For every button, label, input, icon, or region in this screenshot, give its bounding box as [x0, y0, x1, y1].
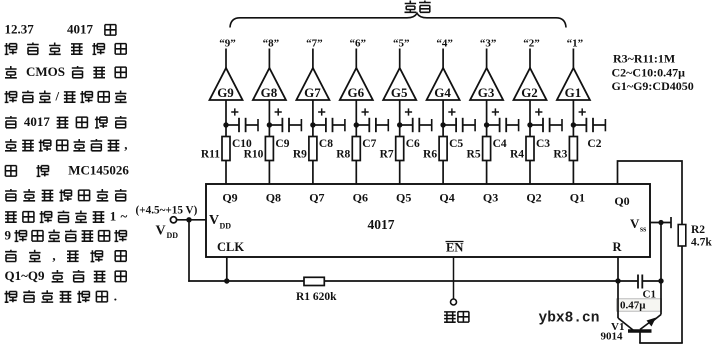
capacitor C10 [226, 118, 258, 132]
svg-text:Q3: Q3 [483, 191, 498, 205]
buffer G9 (CD4050) [210, 68, 243, 100]
resistor R10 [265, 137, 273, 161]
svg-text:G7: G7 [304, 85, 321, 100]
buffer G5 (CD4050) [383, 68, 416, 100]
wire: R10 to 4017 pin Q8 [268, 161, 270, 185]
svg-text:R3: R3 [553, 149, 567, 161]
svg-text:1: 1 [110, 209, 117, 224]
value label 0.47u (boxed) [617, 299, 662, 312]
wire: R6 to 4017 pin Q4 [442, 161, 444, 185]
wire: R11 to 4017 pin Q9 [225, 161, 227, 185]
node: input label 输入 [444, 312, 469, 323]
resistor R8 [352, 137, 360, 161]
buffer G6 (CD4050) [340, 68, 373, 100]
junction on Vss stub [658, 220, 663, 225]
polarity + of capacitor C5 [448, 108, 455, 115]
wire: Q0 pin up and over to R2 [618, 161, 683, 225]
pin label EN (active low) [446, 241, 464, 255]
wire: VDD terminal to pin VDD [177, 219, 206, 221]
svg-text:“3”: “3” [480, 37, 497, 49]
capacitor C7 [356, 118, 388, 132]
capacitor C3 [530, 118, 562, 132]
svg-text:“2”: “2” [523, 37, 540, 49]
svg-text:~: ~ [121, 209, 128, 224]
capacitor C9 [269, 118, 301, 132]
svg-text:C2: C2 [587, 138, 601, 150]
svg-text:Q8: Q8 [266, 191, 281, 205]
polarity + of capacitor C3 [535, 108, 542, 115]
junction node at G2 input [527, 122, 532, 127]
wire: output stub to buffer G6 [355, 49, 357, 69]
svg-text:MC145026: MC145026 [68, 163, 129, 178]
svg-text:ybx8.cn: ybx8.cn [539, 311, 600, 327]
svg-text:“9”: “9” [219, 37, 236, 49]
pin label VSS (inside) [630, 216, 646, 234]
wire: output stub to buffer G2 [529, 49, 531, 69]
capacitor C4 [487, 118, 519, 132]
resistor R2 [678, 225, 686, 247]
svg-text:ss: ss [640, 225, 646, 234]
polarity + of capacitor C4 [492, 108, 499, 115]
svg-text:4017: 4017 [67, 22, 94, 37]
svg-text:G6: G6 [347, 85, 364, 100]
svg-text:R11: R11 [201, 149, 220, 161]
wire: output stub to buffer G1 [572, 49, 574, 69]
svg-text:R5: R5 [467, 149, 481, 161]
svg-text:DD: DD [167, 231, 179, 240]
svg-text:Q0: Q0 [614, 194, 629, 208]
wire: VDD junction down to bottom rail [188, 220, 190, 282]
svg-text:“8”: “8” [263, 37, 280, 49]
resistor R5 [483, 137, 491, 161]
svg-text:C9: C9 [275, 138, 289, 150]
brace over outputs [230, 13, 566, 27]
wire: output stub to buffer G4 [442, 49, 444, 69]
capacitor C8 [313, 118, 345, 132]
wire: output stub to buffer G8 [268, 49, 270, 69]
transistor V1 emitter arrow [640, 318, 656, 330]
svg-text:9014: 9014 [601, 331, 624, 343]
wire: Vss junction down to C1 right node [660, 223, 662, 282]
svg-text:G1: G1 [565, 85, 582, 100]
svg-text:“4”: “4” [436, 37, 453, 49]
wire: EN pin down to input terminal [453, 257, 455, 299]
svg-text:G4: G4 [434, 85, 451, 100]
svg-text:C5: C5 [449, 138, 463, 150]
svg-text:EN: EN [446, 241, 463, 255]
wire: R2 down to emitter rail [681, 246, 683, 343]
resistor R11 [222, 137, 230, 161]
svg-text:V: V [630, 216, 640, 231]
svg-text:R10: R10 [244, 149, 264, 161]
wire: buffer G5 input down to node [399, 100, 401, 137]
svg-text:0.47μ: 0.47μ [620, 300, 646, 312]
polarity + of capacitor C8 [318, 108, 325, 115]
svg-text:DD: DD [220, 222, 232, 231]
wire: bottom collector rail to R2 [639, 342, 683, 344]
wire: output stub to buffer G3 [486, 49, 488, 69]
wire: buffer G6 input down to node [355, 100, 357, 137]
wire: R4 to 4017 pin Q2 [529, 161, 531, 185]
IC U1 4017 body [206, 184, 650, 257]
resistor R4 [526, 137, 534, 161]
buffer G2 (CD4050) [514, 68, 547, 100]
polarity + of capacitor C9 [275, 108, 282, 115]
svg-text:G8: G8 [261, 85, 278, 100]
svg-text:R6: R6 [423, 149, 437, 161]
svg-text:R9: R9 [293, 149, 307, 161]
wire: collector down to rail [639, 333, 641, 344]
svg-text:Q1: Q1 [570, 191, 585, 205]
polarity + of capacitor C2 [579, 108, 586, 115]
left descriptive paragraph (Chinese text) [5, 22, 130, 304]
svg-text:“7”: “7” [306, 37, 323, 49]
junction C1 right node [658, 278, 663, 283]
wire: output stub to buffer G5 [399, 49, 401, 69]
polarity + of capacitor C7 [362, 108, 369, 115]
svg-text:G1~G9:CD4050: G1~G9:CD4050 [612, 79, 694, 93]
svg-text:V: V [209, 213, 219, 228]
polarity + of capacitor C10 [231, 108, 238, 115]
svg-text:R8: R8 [336, 149, 350, 161]
svg-text:Q7: Q7 [309, 191, 324, 205]
svg-text:R4: R4 [510, 149, 524, 161]
buffer G7 (CD4050) [296, 68, 329, 100]
svg-text:4017: 4017 [368, 217, 395, 232]
junction node at G8 input [267, 122, 272, 127]
resistor R9 [309, 137, 317, 161]
capacitor C2 [573, 118, 605, 132]
svg-text:“6”: “6” [350, 37, 367, 49]
junction R pin / rail / C1 [615, 278, 620, 283]
wire: buffer G8 input down to node [268, 100, 270, 137]
resistor R7 [396, 137, 404, 161]
svg-text:CMOS: CMOS [26, 64, 65, 79]
svg-text:C7: C7 [362, 138, 376, 150]
junction node at G5 input [397, 122, 402, 127]
wire: output stub to buffer G9 [225, 49, 227, 69]
buffer G3 (CD4050) [470, 68, 503, 100]
svg-text:C2~C10:0.47μ: C2~C10:0.47μ [612, 66, 686, 80]
junction node at G4 input [440, 122, 445, 127]
svg-text:V: V [156, 224, 166, 239]
wire: R9 to 4017 pin Q7 [312, 161, 314, 185]
wire: R pin down [617, 257, 619, 281]
svg-text:G2: G2 [521, 85, 538, 100]
svg-text:Q5: Q5 [396, 191, 411, 205]
terminal bar at Vss stub end [670, 217, 672, 228]
svg-text:R7: R7 [380, 149, 394, 161]
svg-text:.: . [114, 289, 117, 304]
svg-text:R2: R2 [691, 224, 705, 236]
wire: base lead from C1 left node [618, 281, 633, 330]
junction CLK / rail [224, 278, 229, 283]
capacitor C1 [618, 275, 661, 289]
svg-text:G3: G3 [478, 85, 495, 100]
wire: buffer G3 input down to node [486, 100, 488, 137]
svg-text:,: , [52, 248, 55, 263]
svg-text:G9: G9 [217, 85, 234, 100]
junction node at G9 input [223, 122, 228, 127]
junction node at G3 input [484, 122, 489, 127]
svg-text:C8: C8 [319, 138, 333, 150]
svg-text:R3~R11:1M: R3~R11:1M [613, 52, 675, 66]
svg-text:C4: C4 [493, 138, 507, 150]
junction node at G1 input [571, 122, 576, 127]
wire: buffer G4 input down to node [442, 100, 444, 137]
junction on VDD wire [186, 217, 191, 222]
wire: buffer G7 input down to node [312, 100, 314, 137]
capacitor C5 [443, 118, 475, 132]
svg-text:Q4: Q4 [439, 191, 454, 205]
svg-text:9: 9 [5, 228, 12, 243]
svg-text:/: / [55, 89, 60, 104]
svg-text:“5”: “5” [393, 37, 410, 49]
wire: R3 to 4017 pin Q1 [572, 161, 574, 185]
wire: CLK pin down [226, 257, 228, 281]
wire: R7 to 4017 pin Q5 [399, 161, 401, 185]
wire: output stub to buffer G7 [312, 49, 314, 69]
resistor R6 [439, 137, 447, 161]
svg-text:C6: C6 [406, 138, 420, 150]
svg-text:“1”: “1” [567, 37, 584, 49]
wire: buffer G2 input down to node [529, 100, 531, 137]
svg-text:Q9: Q9 [222, 191, 237, 205]
svg-text:C3: C3 [536, 138, 550, 150]
wire: Vss pin stub [650, 222, 671, 224]
pin label VDD (inside) [209, 213, 231, 231]
buffer G8 (CD4050) [253, 68, 286, 100]
svg-text:G5: G5 [391, 85, 408, 100]
transistor V1 (9014, base bar) [628, 329, 652, 333]
svg-text:R: R [613, 240, 623, 254]
node: output label 输出 [405, 1, 431, 13]
svg-text:Q1~Q9: Q1~Q9 [5, 268, 45, 283]
svg-text:Q6: Q6 [353, 191, 368, 205]
buffer G4 (CD4050) [427, 68, 460, 100]
net label VDD (outside) [156, 224, 179, 241]
wire: buffer G9 input down to node [225, 100, 227, 137]
terminal VDD (circle) [170, 217, 176, 223]
svg-text:R1 620k: R1 620k [296, 291, 337, 303]
junction node at G6 input [354, 122, 359, 127]
svg-text:,: , [124, 137, 127, 152]
buffer G1 (CD4050) [557, 68, 590, 100]
wire: R5 to 4017 pin Q3 [486, 161, 488, 185]
capacitor C6 [400, 118, 432, 132]
wire: buffer G1 input down to node [572, 100, 574, 137]
wire: bottom rail VDD to R node [188, 280, 618, 282]
junction node at G7 input [310, 122, 315, 127]
polarity + of capacitor C6 [405, 108, 412, 115]
svg-text:4.7k: 4.7k [691, 237, 712, 249]
svg-text:(+4.5~+15 V): (+4.5~+15 V) [136, 205, 198, 217]
terminal input (circle) [451, 299, 457, 305]
wire: R8 to 4017 pin Q6 [355, 161, 357, 185]
resistor R1 [304, 277, 324, 285]
svg-text:4017: 4017 [24, 114, 51, 129]
resistor R3 [569, 137, 577, 161]
wire: emitter up to C1 right node [654, 281, 662, 321]
svg-text:Q2: Q2 [526, 191, 541, 205]
svg-text:12.37: 12.37 [5, 22, 35, 37]
svg-text:CLK: CLK [217, 240, 244, 254]
